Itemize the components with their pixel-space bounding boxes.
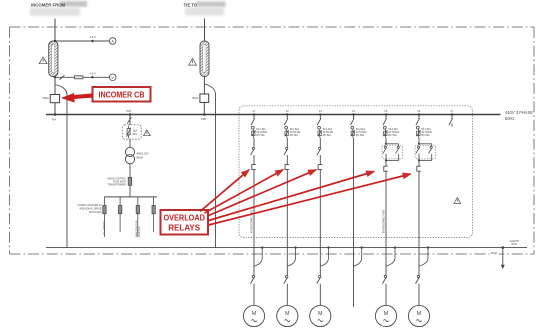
svg-text:RC 5kA: RC 5kA [356,134,365,137]
node spare feeder 7 on bus [451,110,454,116]
isolator blade feeder 5 [383,115,387,126]
svg-text:800A: 800A [192,96,198,100]
svg-text:P.L. POWER: P.L. POWER [103,221,106,235]
wire tie drop [204,19,206,42]
svg-text:440V 3 PHASE: 440V 3 PHASE [505,110,533,115]
isolator blade feeder 4 [350,115,354,126]
svg-text:RC 5kA: RC 5kA [256,134,265,137]
svg-text:F6A: F6A [52,118,57,121]
svg-text:M: M [318,311,323,317]
wire ammeter branch [55,40,110,42]
svg-text:F7: F7 [451,110,454,113]
wire bus to fuse-switch [129,115,131,126]
warning triangle control feeder [144,130,151,136]
drawing frame border [10,27,535,254]
motor isolator feeder 3 [317,275,321,305]
svg-text:M: M [285,311,290,317]
annotation arrow overload relay feeder 1 [200,170,249,212]
breaker feeder 2 [285,126,301,137]
wire earth tap left [55,85,67,248]
earth tap feeder 1 [254,246,263,266]
node 4-5-6 ammeter [54,35,96,42]
svg-text:SUPPLIES: SUPPLIES [139,226,141,237]
svg-text:A: A [111,40,114,44]
svg-text:F4: F4 [352,110,355,113]
breaker feeder 5 [383,126,399,137]
label TIE TO (redacted) [184,2,226,16]
wire feeder 6 down [418,171,420,275]
motor isolator feeder 5 [383,275,387,305]
contactor feeder 3 [317,138,321,165]
annotation arrow overload relay feeder 5 [209,172,375,221]
wire feeder 3 down [319,170,321,276]
isolator blade feeder 1 [251,115,255,126]
control fuse branch 1 [103,197,106,237]
svg-text:16A: 16A [133,128,138,132]
wire CB to bus [54,103,56,115]
svg-text:INCOMER CB: INCOMER CB [99,90,145,100]
overload relay feeder 1 [252,165,256,170]
wire tie to CB [203,76,205,94]
control fuse branch 3 [135,197,141,237]
warning triangle tie incomer [189,58,197,65]
svg-text:6kA: 6kA [133,132,138,136]
motor M5 [375,305,396,326]
svg-text:OVERLOAD: OVERLOAD [163,212,205,222]
isolator blade feeder 6 [416,115,420,126]
node control transformer feeder [127,110,132,116]
node main earth [502,246,505,249]
svg-text:F1: F1 [253,110,256,113]
annotation arrow overload relay feeder 6 [209,174,411,225]
node incomer on bus [52,113,57,121]
warning triangle enclosure [454,198,461,204]
svg-text:RC 5kA: RC 5kA [290,134,299,137]
breaker feeder 1 [251,126,267,137]
overload relay feeder 3 [318,165,322,170]
wire fuse-switch to transformer [129,139,131,147]
svg-text:TRANSFORMER: TRANSFORMER [108,184,127,187]
annotation box OVERLOAD RELAYS [161,210,209,235]
earth tap feeder 2 [287,246,296,266]
wire feeder 1 down [253,170,255,276]
wire incomer to CB [54,77,56,95]
svg-text:RC 5kA: RC 5kA [323,134,332,137]
svg-text:BAR: BAR [512,243,517,246]
svg-text:RELAYS: RELAYS [168,223,200,233]
svg-text:4-5-6: 4-5-6 [89,35,96,39]
wire feeder 2 down [286,170,288,276]
tie CB Q2 [192,94,208,102]
motor isolator feeder 1 [251,275,255,305]
star-delta contactor pair feeder 5 [382,138,403,166]
fuse voltmeter branch [75,76,83,79]
incomer cable/CT element left [49,41,58,77]
earth tap feeder 6 [419,246,429,266]
svg-text:F6: F6 [418,110,421,113]
isolator blade feeder 2 [284,115,288,126]
annotation arrow overload relay feeder 2 [205,170,284,213]
annotation box INCOMER CB [93,87,151,102]
motor M3 [310,305,331,326]
breaker feeder 4 [351,126,367,137]
svg-text:F3: F3 [319,110,322,113]
motor M1 [243,305,264,326]
contactor feeder 1 [251,138,255,165]
isolator blade feeder 3 [317,115,321,126]
note fuses located in drive modules [78,204,102,214]
earth tap feeder 4 [354,246,363,266]
wire fuse to control distribution [129,185,131,197]
wire incomer drop [54,19,56,42]
breaker feeder 3 [318,126,334,137]
node feeder 4 on bus [352,110,355,116]
fuse-switch F1 16A [123,125,142,139]
voltmeter V [109,74,116,81]
control fuse branch 2 [119,197,122,232]
svg-text:F2: F2 [286,110,289,113]
incomer CB Q1 [43,95,60,103]
svg-text:RC 5kA: RC 5kA [388,134,397,137]
svg-text:F6B: F6B [201,118,206,121]
motor M6 [408,305,429,326]
control distribution rail [104,196,156,198]
node 4-5-6 voltmeter [54,72,96,79]
svg-text:V: V [111,76,114,80]
svg-text:50Hz: 50Hz [505,116,515,121]
main control fuse [108,178,132,187]
wire feeder 4 down [353,138,355,307]
svg-text:RC 5kA: RC 5kA [421,134,430,137]
annotation arrow to incomer CB [61,93,93,103]
motor isolator feeder 6 [416,275,420,305]
motor group dashed enclosure [239,106,473,238]
earth tap feeder 5 [386,246,396,266]
wire transformer to control fuse [129,164,131,178]
svg-text:5kVA: 5kVA [136,155,143,159]
warning triangle left incomer [39,57,47,64]
svg-text:800A: 800A [43,96,49,100]
wire feeder 5 down [385,171,387,275]
overload relay feeder 2 [285,165,289,170]
main earth lead with arrow [501,248,505,269]
overload relay feeder 5 [384,166,388,171]
node feeder 6 on bus [418,110,421,116]
main busbar 440V [46,110,533,121]
contactor feeder 2 [284,138,288,165]
motor isolator feeder 2 [284,275,288,305]
control fuse branch 4 [152,197,155,232]
motor M2 [277,305,298,326]
node feeder 3 on bus [319,110,322,116]
wire tie CB to bus [203,102,205,114]
ammeter A [109,38,116,45]
spare feeder isolator [449,115,453,127]
svg-text:PR1: PR1 [127,110,132,113]
node feeder 5 on bus [385,110,388,116]
svg-text:TIE TO: TIE TO [184,2,198,7]
node feeder 1 on bus [253,110,256,116]
star-delta contactor pair feeder 6 [415,138,436,166]
svg-text:INCOMER FROM: INCOMER FROM [31,2,66,7]
svg-text:4-5-6: 4-5-6 [89,72,96,76]
svg-text:F5: F5 [385,110,388,113]
label INCOMER FROM (redacted) [30,1,87,16]
earth bar [46,240,527,255]
svg-text:M: M [417,311,422,317]
node tie on bus [201,113,206,121]
breaker feeder 6 [416,126,432,137]
earth tap feeder 3 [320,246,329,266]
wire voltmeter branch [55,76,110,78]
annotation arrow overload relay feeder 3 [208,170,317,216]
svg-text:INTERCONNECTORS: INTERCONNECTORS [383,209,385,233]
svg-text:MODULES: MODULES [89,211,102,214]
svg-text:MAIN: MAIN [491,252,497,255]
node feeder 2 on bus [286,110,289,116]
isolator blade control feeder [127,117,131,123]
overload relay feeder 6 [417,166,421,171]
tie cable/CT element [200,41,209,77]
transformer T1 440/110V [125,147,148,164]
svg-text:MAIN CONTROL: MAIN CONTROL [135,219,138,237]
switch blade voltmeter branch [60,75,65,79]
wire earth tap tie [205,84,216,248]
svg-text:M: M [252,311,257,317]
svg-text:M: M [384,311,389,317]
